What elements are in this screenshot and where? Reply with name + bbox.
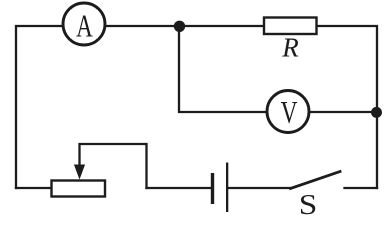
- svg-text:S: S: [299, 188, 318, 220]
- rheostat slider wire: arrow shaft up, over, down to bottom rail: [80, 144, 147, 188]
- wire voltmeter branch from top junction down and right: [179, 31, 267, 112]
- wire battery to switch pivot: [229, 187, 291, 189]
- wire switch contact to right rail: [345, 187, 378, 189]
- svg-text:R: R: [281, 33, 299, 63]
- wire slider corner to battery: [147, 187, 212, 189]
- resistor R body: [264, 18, 317, 35]
- switch S blade (open): [291, 172, 341, 189]
- voltmeter U2 circle: [267, 91, 309, 133]
- battery cell: long thin positive plate: [226, 163, 228, 213]
- ammeter U1 circle: [63, 3, 105, 45]
- wire ammeter to resistor: [105, 25, 264, 27]
- node junction right (voltmeter/right rail): [371, 107, 382, 118]
- node junction top (ammeter/resistor/voltmeter): [174, 21, 185, 32]
- wire voltmeter to right rail: [309, 111, 377, 113]
- wire top-left: left corner to ammeter: [16, 26, 63, 188]
- battery cell: short thick negative plate: [211, 173, 214, 204]
- rheostat slider arrowhead: [74, 165, 85, 180]
- svg-text:V: V: [281, 96, 298, 131]
- rheostat body: [52, 181, 106, 197]
- svg-text:A: A: [76, 9, 93, 45]
- wire bottom-left: left rail to rheostat: [16, 187, 52, 189]
- wire resistor to top-right corner, down right rail: [317, 26, 378, 188]
